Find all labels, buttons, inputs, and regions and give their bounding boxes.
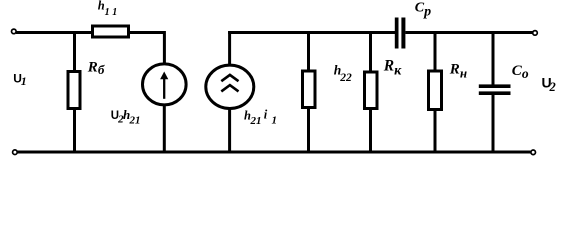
double arrow of source h21i1 <box>221 75 238 81</box>
svg-text:21: 21 <box>129 115 141 127</box>
wire Rк bottom <box>369 109 372 153</box>
wire top rail right segment (source to Cp) <box>228 31 395 34</box>
capacitor Co top plate <box>479 84 511 88</box>
capacitor Cp right plate <box>401 18 405 49</box>
wire Rк top <box>369 31 372 72</box>
terminal input top-left <box>12 29 17 34</box>
resistor h22 <box>303 71 316 108</box>
wire h22 bottom <box>307 108 310 153</box>
svg-text:i: i <box>264 108 268 122</box>
arrow of source U2h21 <box>163 76 165 99</box>
wire h11 to current source corner <box>129 33 165 66</box>
wire Rн top <box>434 31 437 71</box>
svg-text:21: 21 <box>250 115 262 127</box>
wire Rб top <box>73 31 76 72</box>
terminal output bottom-right <box>531 150 536 155</box>
wire top rail left segment <box>16 31 93 34</box>
resistor h11 <box>93 26 129 37</box>
svg-text:Cо: Cо <box>512 63 529 81</box>
current source U2h21 circle <box>143 64 187 105</box>
capacitor Cp left plate <box>395 18 399 49</box>
svg-text:1: 1 <box>112 7 117 18</box>
wire Co top <box>492 31 495 85</box>
svg-text:1: 1 <box>272 114 278 126</box>
wire Co bottom <box>492 95 495 152</box>
svg-text:22: 22 <box>339 72 352 84</box>
wire Rб bottom <box>73 109 76 153</box>
svg-text:1: 1 <box>21 74 27 88</box>
capacitor Co bottom plate <box>479 91 511 95</box>
wire current source h21i1 top <box>228 31 231 66</box>
terminal output top-right <box>533 31 538 36</box>
svg-text:2: 2 <box>549 80 556 94</box>
svg-text:Cр: Cр <box>415 1 431 20</box>
current source h21i1 circle <box>206 65 254 108</box>
wire Rн bottom <box>434 110 437 153</box>
wire source U2h21 bottom <box>163 105 166 153</box>
svg-text:Rк: Rк <box>383 57 402 78</box>
terminal input bottom-left <box>13 150 18 155</box>
resistor Rн <box>429 71 442 110</box>
wire source h21i1 bottom <box>228 108 231 153</box>
svg-text:Rн: Rн <box>449 62 467 81</box>
wire bottom rail <box>17 151 531 154</box>
resistor Rб <box>68 72 80 109</box>
svg-text:1: 1 <box>105 7 110 18</box>
svg-text:Rб: Rб <box>87 60 105 77</box>
wire h22 top <box>307 31 310 71</box>
wire top rail after Cp <box>405 31 532 34</box>
resistor Rк <box>365 72 378 109</box>
